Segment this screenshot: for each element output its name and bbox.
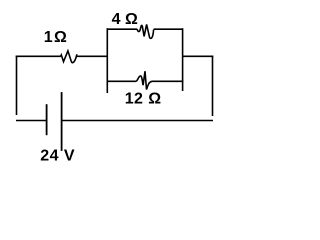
svg-text:4 Ω: 4 Ω bbox=[112, 11, 138, 28]
svg-text:12 Ω: 12 Ω bbox=[125, 90, 162, 107]
svg-text:24 V: 24 V bbox=[40, 147, 75, 164]
svg-text:1 Ω: 1 Ω bbox=[44, 29, 67, 46]
